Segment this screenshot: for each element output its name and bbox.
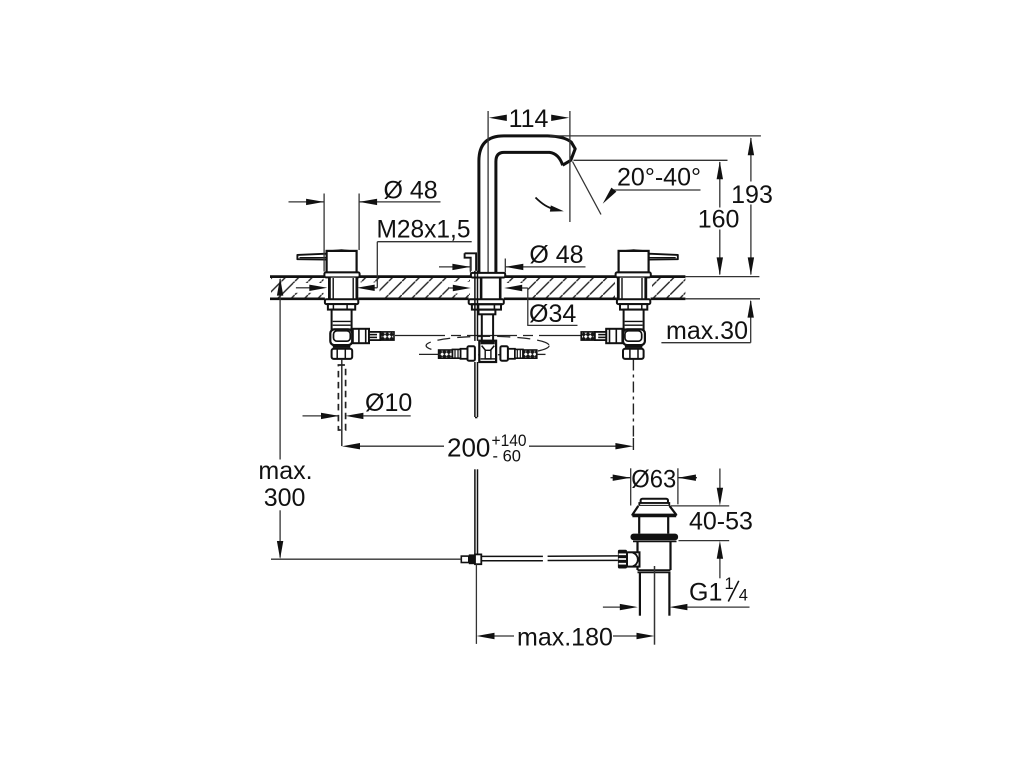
text white backings [632, 184, 773, 488]
svg-text:M28x1,5: M28x1,5 [377, 215, 471, 243]
T left coupling nut [467, 346, 475, 360]
svg-text:Ø 48: Ø 48 [384, 176, 438, 204]
Ø63 arrows [613, 475, 631, 481]
spout shank in deck [480, 278, 483, 299]
label G1 slash [728, 581, 739, 602]
40-53 arrows [717, 488, 723, 506]
svg-text:Ø63: Ø63 [631, 466, 676, 494]
swivel arc arrowhead [550, 205, 564, 211]
left valve pull rod (dashed) [338, 359, 345, 446]
knurled adjuster nut [618, 550, 627, 569]
dim Ø10 [303, 415, 340, 417]
svg-text:Ø34: Ø34 [529, 300, 576, 328]
T right spacer [508, 349, 515, 359]
deck extension lines (thin, right side) [685, 277, 760, 299]
hose reducer [369, 332, 380, 340]
handle escutcheon [324, 272, 359, 277]
deck hatching [271, 278, 324, 299]
T right braided hose end [523, 350, 537, 358]
left valve handle above deck [297, 250, 359, 277]
spout escutcheon [471, 273, 505, 278]
spout flange nut below deck [469, 299, 504, 304]
max.180 arrows [477, 633, 495, 639]
rod ball housing [627, 552, 640, 566]
left valve body below deck [325, 278, 394, 359]
pull rod through deck [474, 271, 476, 341]
drain flare body [632, 506, 676, 515]
svg-text:max.30: max.30 [666, 317, 748, 345]
svg-text:200: 200 [447, 433, 490, 463]
hatch clearances for arrows [294, 283, 329, 293]
svg-text:160: 160 [698, 206, 740, 234]
T right cone fitting [515, 349, 523, 358]
20-40 label leader [612, 189, 700, 191]
dim 200 [360, 445, 444, 447]
M28 arrows [309, 285, 327, 291]
T left spacer [461, 349, 468, 359]
hose braided sleeve [381, 332, 394, 340]
svg-text:G1: G1 [689, 578, 722, 606]
Ø10 arrows [321, 413, 339, 419]
handle lever [297, 254, 326, 260]
max.30 arrow [748, 300, 754, 318]
svg-text:- 60: - 60 [493, 447, 521, 465]
dim 160 line [719, 162, 721, 208]
drain body [636, 542, 638, 570]
svg-text:1: 1 [725, 575, 734, 593]
dim Ø48 left line [289, 201, 325, 203]
horizontal pop-up rod (left ref segment) [271, 558, 461, 560]
dim Ø34 tails + leader [448, 287, 453, 289]
dim 114 extension lines [487, 111, 489, 272]
dim Ø48 left ext lines [323, 194, 325, 272]
valve bottom nut [332, 349, 353, 359]
200 arrows [342, 443, 360, 449]
193 arrows [748, 137, 754, 155]
dim 40-53 [671, 505, 729, 507]
svg-text:max.180: max.180 [517, 623, 613, 651]
hose center line [395, 335, 582, 337]
rod extension line [475, 564, 477, 644]
rod coupling block [461, 556, 469, 562]
svg-text:Ø10: Ø10 [365, 389, 412, 417]
deck top line [270, 275, 685, 278]
spout angle axis line [573, 162, 602, 215]
svg-text:20°-40°: 20°-40° [617, 164, 701, 192]
max.30 leader [750, 301, 752, 343]
svg-text:4: 4 [739, 587, 748, 605]
T-connector [479, 341, 496, 362]
svg-text:Ø 48: Ø 48 [529, 241, 583, 269]
plug stem / center line [654, 566, 656, 645]
T right coupling nut [500, 346, 508, 360]
pull-rod hook [465, 253, 477, 271]
valve mounting flange [325, 299, 358, 304]
max.300 arrows [277, 278, 283, 296]
svg-text:40-53: 40-53 [689, 507, 753, 535]
M28 leader [377, 241, 471, 243]
valve elbow housing [330, 329, 352, 345]
valve body cylinder [332, 310, 352, 330]
drain plug cap [641, 499, 668, 504]
20-40 leader arrow [603, 188, 617, 204]
svg-text:114: 114 [509, 105, 549, 133]
valve mounting hex nut [328, 304, 355, 310]
horizontal rod double line [481, 555, 543, 557]
spout supply tube below deck [481, 314, 483, 341]
valve elbow joint band [333, 345, 351, 348]
valve shank through deck [331, 278, 356, 299]
dim max.180 [495, 635, 515, 637]
dim Ø63 [630, 468, 632, 505]
spout tube [479, 136, 575, 273]
dim Ø48 center ext+line [469, 259, 471, 273]
pull rod lower segment [474, 469, 476, 554]
handle body [327, 251, 357, 273]
ref line spout top [550, 135, 761, 137]
hose hex fitting [353, 329, 369, 343]
dim G1 1/4 [603, 606, 620, 608]
ref line spout outlet [574, 159, 728, 161]
right valve center line [632, 360, 634, 451]
T left cone fitting [452, 349, 460, 358]
pull rod below T [474, 362, 476, 417]
deck bottom line [270, 297, 685, 300]
dim max.300 line [279, 279, 281, 460]
114 arrows [489, 115, 507, 121]
tailpipe [639, 572, 641, 615]
Ø34 arrows [453, 285, 471, 291]
swivel ellipse [426, 336, 549, 355]
G1 arrows [620, 604, 638, 610]
160 arrows [717, 161, 723, 179]
Ø48 left arrows [306, 199, 324, 205]
svg-text:300: 300 [264, 484, 306, 512]
right valve body below deck (mirrored) [581, 278, 650, 359]
T left braided hose end [439, 350, 453, 358]
swivel arc [536, 198, 554, 209]
drain gasket [631, 534, 679, 541]
svg-text:max.: max. [258, 457, 312, 485]
right valve handle above deck (mirrored) [616, 250, 678, 277]
dim 193 line [750, 138, 752, 182]
Ø48 center arrows [452, 264, 470, 270]
